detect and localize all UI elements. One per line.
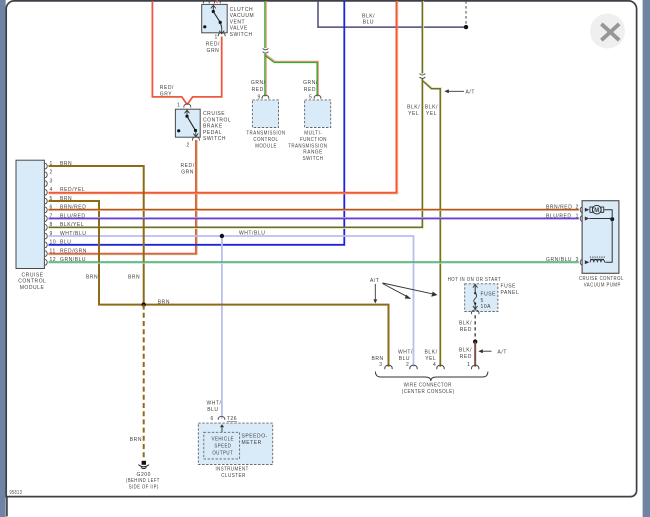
svg-text:METER: METER bbox=[242, 440, 262, 446]
svg-text:FUSE: FUSE bbox=[481, 292, 497, 298]
svg-text:BRN: BRN bbox=[128, 275, 140, 281]
svg-text:RED/GRN: RED/GRN bbox=[60, 248, 87, 254]
fuse panel bottom connector bbox=[471, 310, 479, 314]
wire BRN (module pin 1 to ground junction) bbox=[49, 166, 144, 305]
svg-text:BLU/RED: BLU/RED bbox=[60, 213, 86, 219]
wire BRN (module pin 5 down, across to connector pin 3) bbox=[49, 201, 389, 367]
svg-text:T26: T26 bbox=[227, 416, 237, 422]
svg-text:GRN: GRN bbox=[207, 48, 220, 54]
junction dot BLK/BLU node bbox=[464, 25, 468, 29]
svg-text:CONTROL: CONTROL bbox=[18, 279, 46, 285]
svg-text:BLK/YEL: BLK/YEL bbox=[60, 222, 84, 228]
pump pin connectors 2,1,3 bbox=[580, 207, 582, 265]
svg-text:CRUISE: CRUISE bbox=[203, 111, 225, 117]
TCM pin 9 connector bbox=[262, 95, 269, 99]
brace bbox=[375, 372, 488, 382]
svg-text:BRN: BRN bbox=[60, 196, 72, 202]
junction dot WHT/BLU node bbox=[220, 234, 224, 238]
wire BLK/YEL (top edge, splits; main run to module pin 8) bbox=[49, 1, 424, 228]
cruise control brake pedal switch S2 bbox=[175, 103, 231, 149]
svg-text:6: 6 bbox=[50, 205, 53, 211]
dashed wire to top edge at node bbox=[465, 1, 467, 25]
svg-text:VENT: VENT bbox=[230, 19, 246, 25]
fuse panel with fuse F5 bbox=[448, 277, 520, 314]
svg-text:M: M bbox=[594, 208, 599, 214]
svg-text:SPEED: SPEED bbox=[214, 443, 231, 449]
instrument cluster bbox=[198, 401, 272, 479]
svg-text:5: 5 bbox=[309, 94, 312, 100]
svg-text:G200: G200 bbox=[137, 472, 151, 478]
svg-text:1: 1 bbox=[467, 362, 470, 368]
junction dot BLK/RED node bbox=[473, 340, 477, 344]
svg-text:MODULE: MODULE bbox=[255, 143, 277, 149]
wire RED/YEL (top edge to module pin 4) bbox=[49, 1, 398, 194]
svg-text:CRUISE CONTROL: CRUISE CONTROL bbox=[579, 276, 624, 282]
svg-text:CONTROL: CONTROL bbox=[203, 117, 231, 123]
svg-text:RED: RED bbox=[252, 87, 264, 93]
svg-text:6: 6 bbox=[211, 416, 214, 422]
svg-text:GRN: GRN bbox=[181, 170, 194, 176]
svg-text:CRUISE: CRUISE bbox=[22, 272, 44, 278]
svg-text:BRN/RED: BRN/RED bbox=[546, 205, 572, 211]
wire BLK/RED dashed (fuse panel to junction) bbox=[474, 315, 476, 339]
A/T arrows pointing to wires bbox=[370, 278, 438, 303]
wire GRN/BLU (module pin 12 to pump pin 3) bbox=[49, 262, 579, 264]
svg-text:RED/: RED/ bbox=[206, 42, 220, 48]
svg-text:3: 3 bbox=[576, 257, 579, 263]
multi-function transmission range switch S3 bbox=[288, 94, 331, 162]
svg-text:GRY: GRY bbox=[160, 91, 173, 97]
svg-text:(CENTER CONSOLE): (CENTER CONSOLE) bbox=[402, 389, 455, 395]
svg-text:A/T: A/T bbox=[370, 278, 379, 284]
module pin connectors 1-12 bbox=[45, 163, 47, 265]
svg-text:9: 9 bbox=[50, 231, 53, 237]
solenoid coil L1 bbox=[590, 260, 604, 263]
svg-text:MODULE: MODULE bbox=[20, 285, 45, 291]
svg-text:A/T: A/T bbox=[498, 349, 507, 355]
brake switch pin 2 connector bbox=[192, 137, 199, 141]
wire motor to internal node bbox=[604, 210, 613, 217]
svg-text:BRN/RED: BRN/RED bbox=[60, 205, 86, 211]
svg-text:BLK/: BLK/ bbox=[459, 348, 472, 354]
wire RED/GRN (brake switch pin 2 to module pin 11) bbox=[49, 140, 198, 255]
svg-text:2: 2 bbox=[187, 142, 190, 148]
svg-text:2: 2 bbox=[406, 362, 409, 368]
svg-text:5: 5 bbox=[481, 298, 484, 304]
svg-text:RED/YEL: RED/YEL bbox=[60, 187, 85, 193]
wire GRN/RED (top edge, splits to TCM pin 9 and range switch pin 5) bbox=[263, 1, 319, 96]
svg-text:BLK/: BLK/ bbox=[362, 13, 375, 19]
svg-text:SIDE OF I/P): SIDE OF I/P) bbox=[129, 484, 159, 490]
svg-text:BLU: BLU bbox=[60, 240, 71, 246]
svg-text:1: 1 bbox=[50, 161, 53, 167]
svg-text:MULTI-: MULTI- bbox=[304, 131, 322, 137]
svg-text:4: 4 bbox=[50, 187, 53, 193]
cluster pin 6 connector bbox=[218, 416, 225, 420]
svg-text:VEHICLE: VEHICLE bbox=[212, 436, 235, 442]
clutch switch top pin connectors bbox=[203, 0, 220, 3]
wire BLK/YEL branch (split to center console connector pin 4) bbox=[423, 80, 441, 366]
close button bbox=[590, 14, 625, 49]
svg-text:PEDAL: PEDAL bbox=[203, 130, 222, 136]
module wire colour labels bbox=[60, 161, 87, 263]
clutch switch pin 1 connector bbox=[218, 32, 225, 36]
svg-text:3: 3 bbox=[50, 178, 53, 184]
fuse F5 symbol bbox=[474, 285, 476, 308]
svg-text:BLK/: BLK/ bbox=[459, 321, 472, 327]
svg-text:YEL: YEL bbox=[426, 111, 437, 117]
junction dot internal node bbox=[610, 217, 614, 221]
svg-text:CLUTCH: CLUTCH bbox=[230, 7, 254, 13]
svg-text:RED/: RED/ bbox=[160, 85, 174, 91]
A/T arrow at BLK/RED wire bbox=[478, 349, 507, 355]
svg-text:BLK/: BLK/ bbox=[425, 350, 438, 356]
svg-text:12: 12 bbox=[50, 257, 57, 263]
svg-text:SWITCH: SWITCH bbox=[203, 136, 226, 142]
wire connector J1 (center console) bbox=[372, 350, 488, 396]
svg-text:CONTROL: CONTROL bbox=[253, 137, 278, 143]
svg-text:4: 4 bbox=[433, 362, 436, 368]
svg-text:SWITCH: SWITCH bbox=[303, 156, 324, 162]
svg-text:BLK/: BLK/ bbox=[425, 105, 438, 111]
svg-text:A/T: A/T bbox=[466, 89, 475, 95]
svg-text:BRN: BRN bbox=[60, 161, 72, 167]
svg-text:WHT/: WHT/ bbox=[398, 350, 413, 356]
svg-text:OUTPUT: OUTPUT bbox=[212, 450, 233, 456]
svg-text:VALVE: VALVE bbox=[230, 26, 248, 32]
inline connector on GRN/RED wire bbox=[263, 48, 269, 53]
svg-text:10A: 10A bbox=[481, 304, 492, 310]
svg-text:WHT/: WHT/ bbox=[207, 401, 222, 407]
svg-text:SWITCH: SWITCH bbox=[230, 32, 253, 38]
svg-text:10: 10 bbox=[50, 240, 57, 246]
svg-text:HOT IN ON OR START: HOT IN ON OR START bbox=[448, 277, 502, 283]
wire BLK/RED (junction to connector pin 1) bbox=[474, 342, 476, 367]
svg-text:CLUSTER: CLUSTER bbox=[221, 473, 246, 479]
wire pin 1 to node and node to coil bbox=[589, 219, 612, 263]
svg-text:BLU/RED: BLU/RED bbox=[546, 214, 572, 220]
svg-text:WHT/BLU: WHT/BLU bbox=[239, 230, 265, 236]
svg-text:1: 1 bbox=[576, 214, 579, 220]
svg-text:BLU: BLU bbox=[363, 20, 374, 26]
wire RED/GRY (top edge to brake switch pin 1) bbox=[152, 1, 187, 105]
svg-text:YEL: YEL bbox=[408, 111, 419, 117]
brake switch pin 1 connector bbox=[184, 104, 191, 108]
wire BLU (top edge to module pin 10) bbox=[49, 1, 345, 245]
svg-text:BLK/: BLK/ bbox=[407, 105, 420, 111]
arrow into vehicle speed output bbox=[221, 428, 223, 433]
svg-text:GRN/: GRN/ bbox=[303, 80, 318, 86]
wire BLU/RED (module pin 7 to pump pin 1) bbox=[49, 216, 579, 218]
svg-text:8: 8 bbox=[50, 222, 53, 228]
inline connector on BLK/YEL wire bbox=[420, 74, 426, 79]
cruise control vacuum pump M1 bbox=[546, 201, 624, 289]
motor M1 symbol bbox=[590, 207, 593, 212]
svg-text:95813: 95813 bbox=[10, 490, 23, 496]
connector pin caps 3,2,4,1 bbox=[385, 365, 479, 369]
wire BLK/BLU (top edge across to node) bbox=[318, 1, 466, 27]
svg-text:BRN: BRN bbox=[86, 275, 98, 281]
svg-text:GRN/: GRN/ bbox=[251, 80, 266, 86]
svg-text:TRANSMISSION: TRANSMISSION bbox=[246, 131, 285, 137]
junction dot BRN node bbox=[142, 302, 146, 306]
cruise control module U2 connector bbox=[16, 160, 87, 291]
range switch pin 5 connector bbox=[314, 95, 321, 99]
svg-text:VACUUM PUMP: VACUUM PUMP bbox=[584, 282, 621, 288]
svg-text:GRN/BLU: GRN/BLU bbox=[60, 257, 86, 263]
svg-text:SPEEDO-: SPEEDO- bbox=[242, 434, 268, 440]
clutch vacuum vent valve switch S1 bbox=[202, 4, 255, 40]
svg-text:3: 3 bbox=[379, 362, 382, 368]
wire stub at clutch switch pin 4 (top edge) bbox=[216, 0, 218, 3]
svg-text:1: 1 bbox=[177, 103, 180, 109]
svg-text:FUNCTION: FUNCTION bbox=[300, 137, 327, 143]
svg-text:WHT/BLU: WHT/BLU bbox=[60, 231, 86, 237]
svg-text:FUSE: FUSE bbox=[501, 284, 517, 290]
svg-text:RED/: RED/ bbox=[181, 163, 195, 169]
wire WHT/BLU branch (node to instrument cluster pin 6) bbox=[221, 236, 223, 419]
svg-text:9: 9 bbox=[258, 94, 261, 100]
svg-text:RED: RED bbox=[460, 327, 472, 333]
svg-text:PANEL: PANEL bbox=[501, 290, 520, 296]
wire WHT/BLU (module pin 9 to center console connector pin 2) bbox=[49, 236, 414, 367]
svg-text:TRANSMISSION: TRANSMISSION bbox=[288, 143, 327, 149]
svg-text:(BEHIND LEFT: (BEHIND LEFT bbox=[126, 478, 160, 484]
svg-text:2: 2 bbox=[50, 170, 53, 176]
transmission control module U1 bbox=[246, 94, 285, 149]
svg-text:BRN: BRN bbox=[158, 299, 170, 305]
svg-text:BRAKE: BRAKE bbox=[203, 124, 223, 130]
svg-text:RANGE: RANGE bbox=[303, 150, 323, 156]
wire BRN dashed (junction to ground G200) bbox=[143, 305, 145, 460]
A/T arrow at BLK/YEL split bbox=[444, 89, 475, 95]
vehicle speed output block bbox=[204, 432, 240, 459]
ground G200 bbox=[126, 461, 160, 491]
svg-text:VACUUM: VACUUM bbox=[230, 13, 255, 19]
svg-text:11: 11 bbox=[50, 248, 56, 254]
svg-text:BLU: BLU bbox=[207, 407, 218, 413]
svg-text:WIRE CONNECTOR: WIRE CONNECTOR bbox=[404, 383, 452, 389]
module pin numbers 1-12 bbox=[50, 161, 57, 263]
svg-text:1: 1 bbox=[215, 34, 218, 40]
svg-text:GRN/BLU: GRN/BLU bbox=[546, 257, 572, 263]
svg-text:5: 5 bbox=[50, 196, 53, 202]
wire RED/GRN (clutch switch pin 1 to brake switch pin 1) bbox=[187, 37, 222, 105]
svg-text:RED: RED bbox=[460, 354, 472, 360]
svg-text:INSTRUMENT: INSTRUMENT bbox=[216, 467, 249, 473]
svg-text:BRN: BRN bbox=[130, 437, 142, 443]
svg-text:7: 7 bbox=[50, 213, 53, 219]
wire BRN/RED (module pin 6 to pump pin 2) bbox=[49, 210, 579, 212]
pin entry arrows bbox=[585, 208, 590, 265]
svg-text:2: 2 bbox=[576, 205, 579, 211]
svg-text:RED: RED bbox=[304, 87, 316, 93]
